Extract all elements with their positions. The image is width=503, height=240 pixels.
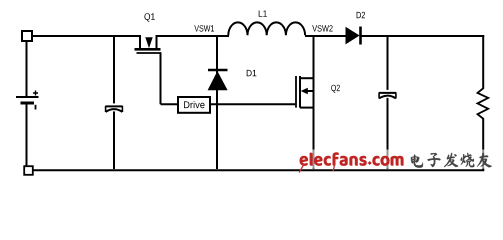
capacitor C1 (input) xyxy=(106,103,123,112)
input terminal top-left xyxy=(22,31,32,41)
watermark logo text: elecfans xyxy=(300,152,367,166)
transistor Q2 (N-MOSFET, low-side switch) xyxy=(296,76,314,108)
wire: left branch vertical below battery xyxy=(26,105,28,167)
label D1 xyxy=(247,70,257,76)
wire: gate drive line into drive block xyxy=(161,103,179,105)
watermark chinese char 发 xyxy=(444,153,458,167)
label Q2 xyxy=(331,85,340,93)
input terminal bottom-left xyxy=(24,166,33,175)
label D2 xyxy=(357,12,365,18)
wire: input capacitor branch vertical xyxy=(113,36,115,169)
watermark chinese char 电 xyxy=(411,155,423,168)
wire: drive output to Q2 gate xyxy=(210,103,295,105)
wire: top rail Q1 drain to L1, node VSW1 xyxy=(157,35,230,37)
wire: D1 branch vertical (VSW1 to bottom rail) xyxy=(216,36,218,169)
wire: output capacitor branch vertical xyxy=(387,36,389,169)
wire: top rail L1 to D2, node VSW2 xyxy=(305,35,346,37)
wire: load branch vertical above resistor xyxy=(482,35,484,89)
label VSW2 xyxy=(312,25,332,31)
label VSW1 xyxy=(194,25,214,31)
wire: top rail D2 cathode to load corner xyxy=(361,35,484,37)
watermark chinese char 友 xyxy=(477,153,492,168)
transistor Q1 (P-MOSFET, high-side switch) xyxy=(135,35,162,53)
diode D1 (catch diode, cathode up) xyxy=(208,70,228,90)
wire: Q1 gate drop to drive line xyxy=(160,53,162,104)
watermark logo swash under f xyxy=(333,164,335,171)
wire: load branch vertical below resistor xyxy=(482,119,484,172)
wire: Q2 drain/source vertical (VSW2 to bottom rail) xyxy=(313,36,315,169)
label Q1 xyxy=(144,13,154,22)
watermark chinese char 子 xyxy=(427,153,440,167)
capacitor C2 (output) xyxy=(379,90,396,99)
watermark band xyxy=(293,150,503,169)
label L1 xyxy=(259,11,267,17)
watermark logo dot separator xyxy=(368,161,372,165)
wire: bottom rail xyxy=(33,169,484,171)
wire: left branch vertical above battery xyxy=(26,42,28,96)
watermark logo text: com xyxy=(372,156,403,166)
wire: top rail from input terminal to Q1 source xyxy=(33,35,141,37)
drive block U1 xyxy=(178,97,210,113)
battery B1 xyxy=(16,91,39,110)
resistor R1 (load) xyxy=(478,88,489,119)
watermark logo swash under e xyxy=(299,164,304,173)
diode D2 (output rectifier) xyxy=(346,27,361,45)
inductor L1 xyxy=(228,22,305,35)
watermark chinese char 烧 xyxy=(461,153,475,167)
